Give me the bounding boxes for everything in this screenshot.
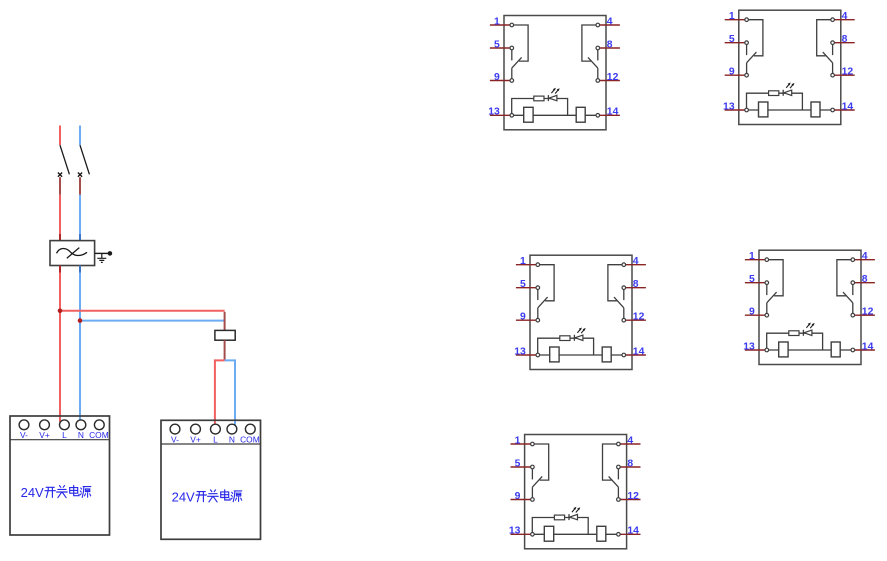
breaker SW1 X terminal [58, 173, 62, 177]
relay K3 [514, 255, 646, 369]
junction dot N [78, 318, 83, 323]
breaker SW1 lever [60, 145, 69, 174]
relay K5 [509, 435, 641, 549]
fuse F1 top pin [224, 312, 226, 331]
wire red filter to PS1 L [59, 273, 61, 423]
breaker SW2 lever [80, 145, 89, 174]
wire blue breaker to filter [79, 195, 81, 234]
filter bottom pin L [59, 266, 61, 273]
wire red breaker to filter [59, 195, 61, 234]
filter wave glyph [57, 248, 88, 255]
wire red branch horizontal [60, 310, 225, 312]
breaker SW2 bottom pin [79, 177, 81, 195]
wire blue fuse to PS2 N [225, 360, 235, 425]
breaker SW1 bottom pin [59, 177, 61, 195]
EMI filter U1 box [50, 241, 95, 266]
fuse F1 body [215, 330, 235, 340]
power supply PS1 (24V) [10, 416, 110, 535]
ground symbol [97, 253, 106, 262]
wire N line top (blue) [79, 126, 81, 146]
earth net dot [108, 251, 113, 256]
wire red fuse to PS2 L [215, 360, 225, 424]
wire blue filter to PS1 N [79, 273, 81, 420]
filter top pin L [59, 234, 61, 241]
breaker SW2 X terminal [78, 173, 82, 177]
filter slash glyph [67, 248, 80, 259]
wire L line top (red) [59, 126, 61, 146]
wire blue branch horizontal [80, 320, 225, 322]
power supply PS2 (24V) [161, 420, 261, 539]
filter bottom pin N [79, 266, 81, 273]
filter earth lead [95, 252, 108, 254]
filter top pin N [79, 234, 81, 241]
relay K4 [743, 250, 875, 364]
junction dot L [58, 309, 63, 314]
relay K1 [488, 16, 620, 130]
relay K2 [723, 10, 855, 124]
fuse F1 bottom pin [224, 340, 226, 360]
